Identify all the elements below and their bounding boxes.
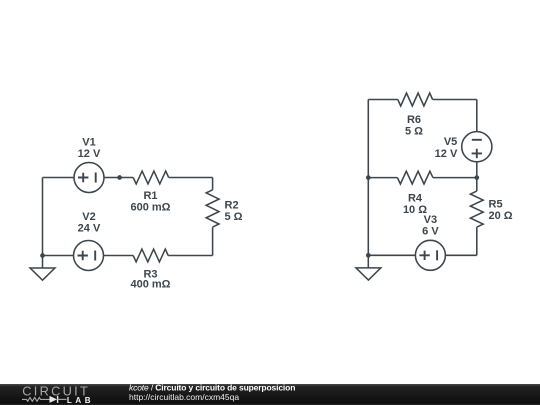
wire: left vertical rail of right circuit	[367, 100, 369, 256]
svg-text:V2: V2	[82, 211, 95, 223]
svg-text:5 Ω: 5 Ω	[405, 126, 423, 138]
wire: V1 to R1 (through node)	[104, 177, 133, 179]
svg-text:5 Ω: 5 Ω	[225, 211, 243, 223]
footer url text	[129, 392, 239, 402]
node: junction bottom-left of right circuit	[366, 253, 371, 258]
wire: ground stub right circuit	[367, 255, 369, 267]
voltage source V5	[462, 132, 492, 162]
label R6 5 ohm	[405, 114, 423, 138]
wire: ground stub left circuit	[42, 256, 44, 268]
label R3 400 mohm	[130, 269, 170, 291]
node: junction left middle	[366, 175, 371, 180]
label V2 value	[78, 211, 101, 235]
svg-text:kcote / Circuito y circuito de: kcote / Circuito y circuito de superposi…	[129, 382, 295, 392]
wire: top row to R6	[368, 99, 398, 101]
svg-text:LAB: LAB	[67, 396, 91, 405]
resistor R4	[397, 171, 433, 184]
svg-text:R5: R5	[489, 198, 503, 210]
label V1 value	[78, 137, 101, 161]
svg-text:20 Ω: 20 Ω	[489, 210, 513, 222]
svg-text:http://circuitlab.com/cxm45qa: http://circuitlab.com/cxm45qa	[129, 392, 239, 402]
wire: top row from rail to V1	[43, 177, 75, 179]
resistor R5	[470, 191, 483, 227]
ground symbol left circuit	[30, 268, 55, 280]
svg-text:600 mΩ: 600 mΩ	[130, 202, 170, 214]
node: junction at left-bottom of left circuit	[40, 253, 45, 258]
logo CIRCUIT text	[22, 384, 89, 399]
wire: R6 to right rail down to V5	[433, 100, 477, 132]
label V5 value	[435, 136, 458, 160]
wire: middle row left rail to R4	[368, 177, 397, 179]
label R1 600 mohm	[130, 190, 170, 214]
svg-text:R1: R1	[143, 190, 157, 202]
node: junction right middle	[474, 175, 479, 180]
svg-text:12 V: 12 V	[435, 148, 458, 160]
svg-text:6 V: 6 V	[422, 226, 439, 238]
resistor R3	[133, 249, 168, 262]
footer title text	[129, 382, 295, 392]
wire: R3 to V2	[104, 255, 133, 257]
voltage source V3	[415, 240, 445, 270]
logo LAB text	[67, 396, 91, 405]
wire: R1 to top-right corner and down to R2	[169, 178, 213, 190]
resistor R1	[133, 171, 169, 184]
label R4 10 ohm	[403, 193, 427, 217]
wire: V5 to middle node	[476, 162, 478, 177]
label V3 value	[422, 214, 439, 238]
wire: R5 down to bottom-right corner to V3	[446, 227, 477, 255]
wire: R2 to bottom-right corner to R3	[168, 227, 212, 255]
label R2 5 ohm	[225, 199, 243, 223]
wire: middle node down to R5	[476, 178, 478, 192]
resistor R2	[206, 190, 219, 227]
wire: V3 to bottom-left of right circuit	[368, 254, 415, 256]
svg-text:V3: V3	[424, 214, 437, 226]
wire: left vertical rail of left circuit	[42, 178, 44, 256]
label R5 20 ohm	[489, 198, 513, 222]
voltage source V1	[74, 163, 104, 193]
svg-text:V5: V5	[444, 136, 457, 148]
svg-text:400 mΩ: 400 mΩ	[130, 279, 170, 291]
node: junction right of V1	[117, 175, 122, 180]
ground symbol right circuit	[356, 268, 381, 280]
voltage source V2	[74, 241, 104, 271]
svg-text:12 V: 12 V	[78, 148, 101, 160]
resistor R6	[398, 93, 433, 106]
logo resistor-diode line	[22, 396, 67, 403]
svg-text:R6: R6	[407, 114, 421, 126]
wire: R4 to right rail	[433, 177, 477, 179]
svg-text:R4: R4	[408, 193, 423, 205]
svg-text:V1: V1	[82, 137, 95, 149]
wire: V2 to left rail	[43, 255, 74, 257]
svg-text:24 V: 24 V	[78, 223, 101, 235]
svg-text:R2: R2	[225, 199, 239, 211]
